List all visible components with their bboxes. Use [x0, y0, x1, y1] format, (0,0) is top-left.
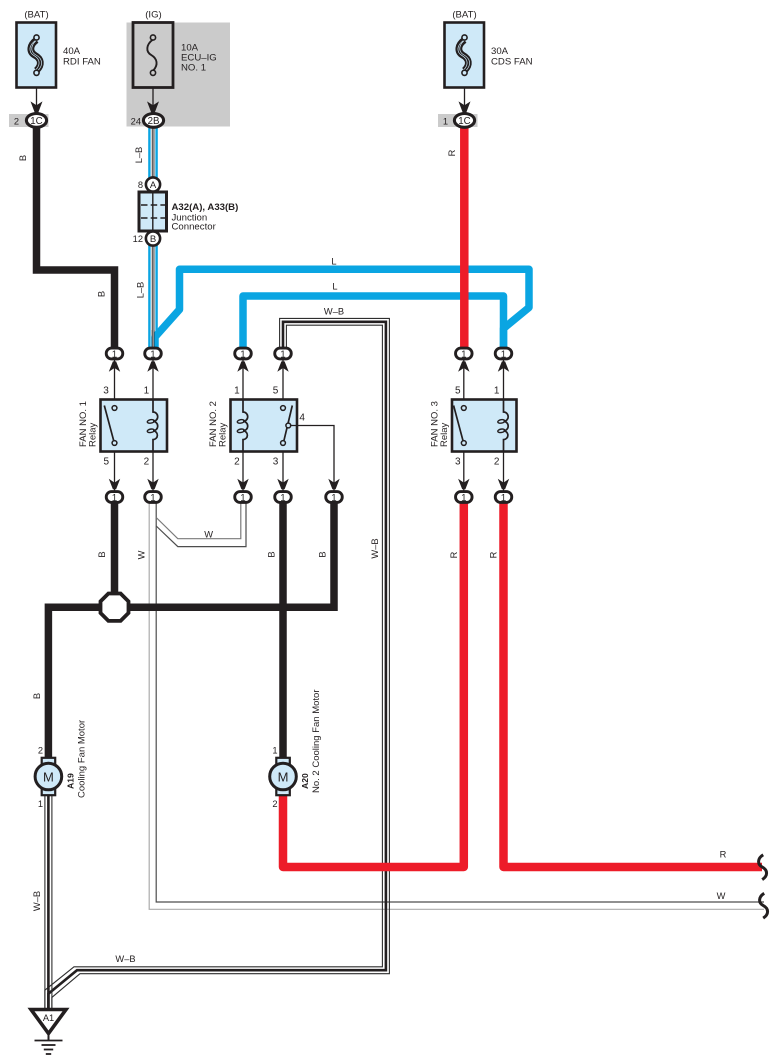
wire R relay3-pin2 to right edge	[504, 502, 763, 867]
svg-text:A19: A19	[66, 773, 76, 789]
svg-text:B: B	[97, 291, 107, 297]
wire B relay1-pin5 to junction octagon	[111, 502, 119, 600]
wire L-B core over blue stub	[152, 330, 155, 349]
svg-text:No. 2 Cooling Fan Motor: No. 2 Cooling Fan Motor	[311, 690, 322, 794]
svg-text:4: 4	[299, 413, 305, 424]
break symbol W wire	[760, 893, 768, 918]
motor A20 body	[270, 763, 297, 790]
svg-text:40A: 40A	[63, 46, 81, 57]
relay U1 switch contact bottom (pin5)	[112, 441, 117, 446]
svg-text:1: 1	[112, 493, 117, 504]
svg-text:2: 2	[38, 746, 43, 756]
arrow down pin4 U2	[328, 479, 339, 489]
connector oval relay2 pin5	[275, 348, 292, 359]
junction connector A32/A33 box	[139, 192, 167, 231]
wire W-B motor A19 to ground (grey line)	[51, 795, 53, 1008]
relay U3 coil	[504, 400, 509, 452]
connector oval relay2 pin3	[275, 492, 292, 503]
wire B bus: motor A19 up, across, to pin4 oval	[48, 502, 334, 760]
relay U3 pin2 wire down	[503, 452, 505, 491]
motor A20 bottom tab	[276, 789, 290, 796]
relay U1 switch blade	[104, 406, 113, 441]
wire L-B junction to relay1-pin1 (right blue)	[155, 127, 157, 349]
svg-text:1: 1	[144, 386, 150, 397]
svg-text:W: W	[717, 891, 726, 901]
relay U2 FAN NO.2 box	[231, 400, 298, 452]
svg-text:1: 1	[280, 493, 285, 504]
fuse F2 element thin S	[147, 40, 156, 71]
relay U2 pin2 wire down	[242, 452, 244, 491]
svg-text:L: L	[331, 257, 336, 267]
svg-text:2: 2	[494, 457, 500, 468]
arrow up pin1	[147, 361, 158, 371]
svg-text:1: 1	[461, 349, 466, 360]
motor A20 top tab	[276, 758, 290, 765]
svg-text:1: 1	[240, 493, 245, 504]
svg-text:Relay: Relay	[439, 422, 450, 447]
arrow up pin5 U3	[458, 361, 469, 371]
svg-text:1: 1	[501, 493, 506, 504]
relay U2 pin4 wire right-down	[291, 426, 334, 492]
relay U2 pin1 wire up	[242, 360, 244, 399]
svg-text:2: 2	[14, 117, 19, 127]
svg-text:1: 1	[280, 349, 285, 360]
svg-text:W–B: W–B	[115, 954, 135, 964]
connector oval 1C	[26, 114, 46, 128]
connector oval relay1 pin2	[145, 492, 162, 503]
wire B relay2-pin3 to motor A20	[279, 502, 287, 759]
wire W-B relay2-pin5 to ground (thin line)	[52, 318, 390, 1008]
svg-text:1: 1	[461, 493, 466, 504]
svg-text:1: 1	[331, 493, 336, 504]
svg-text:M: M	[43, 770, 54, 785]
relay U3 pin3 wire down	[463, 452, 465, 491]
relay U2 switch blade	[284, 406, 292, 441]
svg-text:2: 2	[272, 799, 277, 809]
svg-text:24: 24	[131, 117, 141, 127]
junction octagon	[101, 594, 129, 621]
svg-text:R: R	[720, 850, 727, 860]
relay U2 pin5 wire up	[282, 360, 284, 399]
svg-text:B: B	[32, 693, 42, 699]
wire R motor A20 to relay3-pin3	[283, 502, 464, 867]
svg-text:1: 1	[494, 386, 500, 397]
wire L relay1-pin1 to relay3-pin1	[155, 269, 529, 349]
wire W branch to relay2-pin2 (upper line)	[156, 503, 241, 539]
svg-text:(BAT): (BAT)	[24, 10, 48, 21]
svg-text:CDS FAN: CDS FAN	[491, 57, 533, 68]
wire L-B junction to relay1-pin1 (black core)	[152, 127, 155, 349]
wire W-B motor A19 to ground (thin line)	[44, 795, 46, 1008]
arrow down pin2 U3	[498, 479, 509, 489]
fuse F2 ECU-IG box	[133, 23, 173, 88]
relay U3 pin1 wire up	[503, 360, 505, 399]
arrow down fuse F1	[31, 101, 43, 112]
arrow down pin2	[147, 479, 158, 489]
svg-text:A: A	[150, 180, 157, 191]
svg-text:2B: 2B	[148, 116, 160, 127]
wire fuse F2 to connector	[152, 88, 154, 111]
svg-text:M: M	[278, 770, 289, 785]
svg-text:1C: 1C	[30, 116, 42, 127]
svg-text:8: 8	[138, 180, 143, 190]
svg-text:2: 2	[234, 457, 240, 468]
relay U3 pin5 wire up	[463, 360, 465, 399]
svg-text:1: 1	[272, 746, 277, 756]
arrow down pin3 U3	[458, 479, 469, 489]
svg-text:R: R	[489, 551, 499, 558]
wire W relay1-pin2 down-left vertical (grey line)	[149, 503, 764, 910]
svg-text:W: W	[204, 530, 213, 540]
motor A19 bottom tab	[42, 789, 56, 796]
svg-text:1: 1	[112, 349, 117, 360]
svg-text:B: B	[150, 234, 156, 245]
svg-text:Relay: Relay	[88, 422, 99, 447]
arrow down pin3 U2	[277, 479, 288, 489]
arrow up pin3	[109, 361, 120, 371]
ground hatch lines	[35, 1040, 63, 1042]
svg-text:B: B	[317, 551, 327, 557]
svg-text:W: W	[137, 550, 147, 559]
connector oval relay1 pin5	[106, 492, 123, 503]
connector oval relay3 pin1	[495, 348, 512, 359]
svg-text:3: 3	[273, 457, 279, 468]
svg-text:B: B	[18, 155, 28, 161]
fuse F1 40A RDI FAN box	[17, 23, 57, 88]
arrow down fuse F2	[147, 101, 159, 112]
svg-text:W–B: W–B	[32, 891, 42, 911]
svg-text:3: 3	[103, 386, 109, 397]
relay U1 coil	[153, 400, 158, 452]
connector oval relay2 pin1	[235, 348, 252, 359]
relay U2 pin4 contact	[286, 423, 291, 428]
svg-text:1: 1	[501, 349, 506, 360]
wire fuse F3 to connector	[464, 88, 466, 111]
connector oval relay2 pin2	[235, 492, 252, 503]
wire L-B junction to relay1-pin1 (left blue)	[148, 127, 150, 349]
connector oval relay1 pin1	[145, 348, 162, 359]
svg-text:Cooling Fan Motor: Cooling Fan Motor	[77, 720, 88, 798]
motor A19 body	[35, 763, 62, 790]
connector oval relay3 pin2	[495, 492, 512, 503]
connector oval 1C right	[454, 114, 474, 128]
wire W-B motor A19 to ground (thick line)	[47, 795, 50, 1008]
junction connector circle B	[146, 231, 160, 245]
svg-text:A1: A1	[43, 1013, 54, 1023]
svg-text:Connector: Connector	[172, 222, 217, 233]
svg-text:1: 1	[38, 799, 43, 809]
svg-text:(BAT): (BAT)	[452, 10, 476, 21]
relay U1 pin3 wire up	[114, 360, 116, 399]
svg-text:12: 12	[133, 234, 143, 244]
svg-text:L: L	[332, 282, 337, 292]
arrow down pin2 U2	[237, 479, 248, 489]
relay U3 FAN NO.3 box	[452, 400, 517, 452]
relay U2 coil	[243, 400, 248, 452]
svg-text:1C: 1C	[458, 116, 470, 127]
connector oval relay3 pin3	[456, 492, 473, 503]
svg-text:5: 5	[273, 386, 279, 397]
connector oval relay2 pin4	[326, 492, 343, 503]
fuse F3 30A CDS FAN box	[445, 23, 485, 88]
svg-text:3: 3	[455, 457, 461, 468]
wire fuse F1 to connector	[36, 88, 38, 111]
relay U1 pin1 wire up	[152, 360, 154, 399]
svg-text:1: 1	[150, 349, 155, 360]
svg-text:1: 1	[240, 349, 245, 360]
connector oval relay1 pin3	[106, 348, 123, 359]
connector 1C strip	[9, 114, 49, 127]
svg-text:NO. 1: NO. 1	[181, 63, 206, 74]
relay U2 pin3 wire down	[282, 452, 284, 491]
wire W-B relay2-pin5 to ground (thick line)	[48, 322, 386, 1008]
svg-text:L–B: L–B	[134, 147, 144, 164]
svg-text:A32(A), A33(B): A32(A), A33(B)	[172, 202, 239, 213]
connector 1C strip right	[438, 114, 478, 127]
arrow up pin5 U2	[277, 361, 288, 371]
wire B fuse RDI to relay1-pin3	[37, 124, 115, 350]
wire W-B relay2-pin5 to ground (grey line)	[45, 325, 383, 1008]
wire R fuse CDS to relay3-pin5	[460, 124, 469, 350]
ground A1 triangle	[31, 1010, 66, 1034]
arrow down pin5	[109, 479, 120, 489]
connector oval 2B	[143, 114, 163, 128]
motor A19 top tab	[42, 758, 56, 765]
svg-text:1: 1	[150, 493, 155, 504]
arrow up pin1 U2	[237, 361, 248, 371]
wire W branch to relay2-pin2 (lower line)	[156, 503, 246, 547]
relay U2 switch contact top (pin5)	[281, 406, 286, 411]
svg-text:W–B: W–B	[370, 538, 380, 558]
svg-text:30A: 30A	[491, 46, 509, 57]
junction connector circle A	[146, 177, 160, 191]
relay U1 pin5 wire down	[114, 452, 116, 491]
svg-text:B: B	[266, 551, 276, 557]
svg-text:1: 1	[234, 386, 240, 397]
svg-text:2: 2	[144, 457, 150, 468]
fuse F3 element thick S	[459, 40, 468, 71]
break symbol R wire	[759, 855, 767, 880]
svg-text:1: 1	[443, 117, 448, 127]
svg-text:Relay: Relay	[218, 422, 229, 447]
relay U2 switch contact bottom (pin3)	[281, 441, 286, 446]
svg-text:(IG): (IG)	[145, 10, 162, 21]
fuse F1 element thick S	[31, 40, 40, 71]
svg-text:L–B: L–B	[136, 282, 146, 299]
wire W relay1-pin2 down-left vertical (black line)	[156, 503, 764, 903]
relay U3 switch blade	[454, 406, 463, 441]
relay U3 switch contact top (pin5)	[461, 406, 466, 411]
svg-text:R: R	[447, 149, 457, 156]
svg-text:R: R	[449, 551, 459, 558]
svg-text:B: B	[97, 551, 107, 557]
svg-text:RDI FAN: RDI FAN	[63, 57, 101, 68]
arrow up pin1 U3	[498, 361, 509, 371]
svg-text:5: 5	[104, 457, 110, 468]
relay U1 switch contact top (pin3)	[112, 406, 117, 411]
svg-text:A20: A20	[300, 773, 310, 789]
svg-text:W–B: W–B	[324, 307, 344, 317]
wire L relay2-pin1 to relay3-pin1	[243, 296, 504, 349]
relay U3 switch contact bottom (pin3)	[461, 441, 466, 446]
relay U1 FAN NO.1 box	[101, 400, 168, 452]
connector oval relay3 pin5	[456, 348, 473, 359]
relay U1 pin2 wire down	[152, 452, 154, 491]
ground stem	[48, 1034, 50, 1041]
arrow down fuse F3	[459, 101, 471, 112]
grey block ECU-IG	[127, 23, 231, 127]
svg-text:5: 5	[455, 386, 461, 397]
